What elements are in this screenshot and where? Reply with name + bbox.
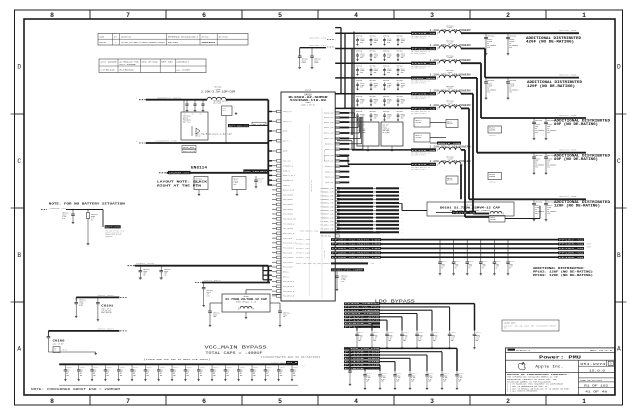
wire rail 5 run [461, 94, 489, 214]
node VDD_PROTECT net label [243, 169, 268, 173]
svg-text:4.7UF: 4.7UF [476, 337, 480, 339]
VCC_MAIN ground return wire [59, 384, 298, 386]
svg-text:C61XX: C61XX [387, 83, 391, 85]
svg-text:6.3V: 6.3V [341, 281, 345, 283]
svg-text:6V0: 6V0 [360, 42, 363, 44]
svg-text:BUCK1_LX0: BUCK1_LX0 [324, 122, 333, 124]
svg-text:6.3V: 6.3V [443, 379, 447, 381]
svg-text:1: 1 [582, 398, 586, 405]
svg-text:DNI_OPT: DNI_OPT [383, 125, 389, 127]
svg-text:1UF-X5R-0201: 1UF-X5R-0201 [101, 310, 111, 312]
IC U4810 right pins upper [324, 112, 349, 184]
node BATT_MAN_SYS net label [228, 124, 268, 128]
svg-text:6V0: 6V0 [387, 117, 390, 119]
relay boxes mid [414, 118, 446, 142]
svg-text:Q6110: Q6110 [183, 117, 188, 119]
svg-text:1.0UF: 1.0UF [196, 182, 200, 184]
svg-text:BUCK3_LX: BUCK3_LX [325, 144, 333, 146]
svg-text:4.7UF: 4.7UF [428, 377, 432, 379]
svg-text:POL: POL [535, 132, 538, 134]
LDO group1 net labels and wires [342, 302, 475, 330]
svg-text:PGND7_S0: PGND7_S0 [321, 214, 334, 216]
svg-text:6V0: 6V0 [387, 102, 390, 104]
wire staircase to rail7 [337, 141, 352, 150]
svg-text:PP104_SW: PP104_SW [559, 248, 584, 250]
svg-text:C61XX: C61XX [387, 114, 391, 116]
VCC_MAIN bypass capacitor row [64, 364, 299, 381]
svg-text:6V0: 6V0 [374, 72, 377, 74]
svg-text:NO_STUFF_OPTION_S: NO_STUFF_OPTION_S [411, 82, 426, 84]
svg-text:6V0: 6V0 [387, 57, 390, 59]
svg-text:6V: 6V [293, 373, 295, 375]
svg-text:PGND3_S0: PGND3_S0 [321, 199, 334, 201]
svg-text:120UF: 120UF [387, 85, 391, 87]
svg-text:120F: 120F [455, 266, 459, 268]
svg-text:PP1V8_S0: PP1V8_S0 [412, 33, 436, 35]
svg-text:35H: 35H [133, 375, 136, 377]
svg-text:NO_STUFF_OPTION_S: NO_STUFF_OPTION_S [411, 38, 426, 40]
svg-text:C61: C61 [184, 114, 187, 116]
svg-text:35H: 35H [186, 375, 189, 377]
bus bypass capacitors row [438, 239, 515, 275]
svg-text:6.3V: 6.3V [366, 379, 370, 381]
svg-text:6V0: 6V0 [387, 42, 390, 44]
svg-text:- +: - + [401, 228, 404, 230]
svg-text:6V: 6V [226, 373, 228, 375]
node PP0V9_SRAM net label [411, 76, 436, 84]
additional distributed 80F text [554, 119, 610, 127]
svg-text:C61XX: C61XX [360, 99, 364, 101]
title block sheet cells [578, 378, 614, 394]
svg-text:4.7UF: 4.7UF [418, 337, 422, 339]
inductor L6110 [430, 85, 471, 96]
IC right PRECHG net labels [321, 235, 340, 238]
svg-text:C61X: C61X [253, 370, 257, 372]
svg-text:GPIO_1: GPIO_1 [283, 272, 290, 274]
svg-text:ELTED098: ELTED098 [120, 70, 134, 72]
border column numbers top [50, 12, 586, 19]
net INPUT_BAYS wire mid [195, 279, 270, 282]
svg-text:BUCK0_LX0: BUCK0_LX0 [309, 38, 326, 40]
LDO group1 capacitors [355, 331, 481, 350]
svg-text:120UF: 120UF [401, 70, 405, 72]
svg-text:5: 5 [278, 398, 282, 405]
svg-text:15.0.0: 15.0.0 [589, 369, 606, 372]
svg-text:6.3V: 6.3V [373, 338, 377, 340]
node PP1V0_S0 net label [411, 92, 436, 100]
svg-text:120UF: 120UF [360, 40, 364, 42]
capacitor C6190 [74, 299, 85, 318]
svg-text:SEQUENCER: SEQUENCER [105, 236, 113, 238]
svg-text:PP1V1_SUBSMC: PP1V1_SUBSMC [345, 310, 380, 312]
svg-text:NO_STUFF_OPTION_S: NO_STUFF_OPTION_S [411, 53, 426, 55]
svg-text:POL: POL [547, 213, 550, 215]
svg-text:X5R: X5R [358, 340, 361, 342]
label LDO BYPASS [375, 299, 416, 304]
svg-text:C: C [17, 158, 21, 165]
svg-text:C614X: C614X [451, 335, 455, 337]
svg-text:10UF: 10UF [143, 273, 147, 275]
svg-text:6V0: 6V0 [401, 57, 404, 59]
svg-text:BUCK4_LX: BUCK4_LX [325, 149, 333, 151]
svg-text:- +: - + [401, 199, 404, 201]
svg-text:120UF: 120UF [387, 70, 391, 72]
svg-text:C6134: C6134 [314, 60, 318, 62]
svg-text:6.3V: 6.3V [411, 379, 415, 381]
svg-text:X5R: X5R [443, 381, 446, 383]
svg-text:BUCK7_LX: BUCK7_LX [325, 171, 333, 173]
svg-text:1.0UF: 1.0UF [234, 182, 238, 184]
svg-text:- +: - + [401, 188, 404, 190]
svg-text:BUCK0_LX1: BUCK0_LX1 [324, 117, 333, 119]
svg-text:PGND1_S0: PGND1_S0 [321, 192, 334, 194]
svg-text:120F: 120F [468, 266, 472, 268]
net NO_BUS short bar [300, 231, 380, 234]
svg-text:120UF: 120UF [387, 116, 391, 118]
note boxes DNI [182, 146, 196, 153]
svg-text:SWIR_N: SWIR_N [283, 170, 290, 172]
svg-text:6V: 6V [200, 373, 202, 375]
svg-text:X5R: X5R [396, 381, 399, 383]
svg-text:1UF: 1UF [173, 371, 176, 373]
svg-text:BUCK0_SW0: BUCK0_SW0 [559, 29, 577, 32]
net PPBUS_S1PG wire with C6143 caps [128, 263, 269, 266]
svg-text:C61X: C61X [146, 370, 150, 372]
svg-text:C61: C61 [200, 114, 203, 116]
svg-text:PP108_SW: PP108_SW [559, 257, 584, 259]
inductor L6195 [430, 54, 471, 65]
svg-text:C61XX: C61XX [374, 83, 378, 85]
svg-text:PMU_LDO3: PMU_LDO3 [283, 238, 292, 240]
svg-text:ADDITIONAL DISTRIBUTED:: ADDITIONAL DISTRIBUTED: [533, 267, 585, 270]
svg-text:BUCK4_SW0: BUCK4_SW0 [559, 195, 577, 198]
svg-text:VOUT_LD1: VOUT_LD1 [325, 182, 333, 184]
svg-text:6V0: 6V0 [387, 87, 390, 89]
svg-text:DNI10.5V-08: DNI10.5V-08 [183, 151, 195, 153]
node PGATE net label [452, 211, 476, 214]
svg-text:6V: 6V [482, 267, 484, 269]
svg-text:X5R-0402: X5R-0402 [359, 130, 366, 132]
wire IC pin to D6190 [246, 290, 280, 295]
svg-text:C614X: C614X [418, 335, 422, 337]
svg-text:1UF: 1UF [186, 371, 189, 373]
svg-text:6.3V: 6.3V [207, 295, 211, 297]
svg-text:4.7UF: 4.7UF [381, 377, 385, 379]
svg-text:INT_SCC: INT_SCC [283, 161, 291, 163]
net PP103_SW long bus wire [296, 243, 584, 246]
svg-text:6V: 6V [468, 267, 470, 269]
svg-text:120UF: 120UF [401, 101, 405, 103]
title block frame [506, 348, 615, 395]
svg-text:C61XX: C61XX [401, 99, 405, 101]
Apple logo [518, 362, 525, 369]
svg-text:4.7UF: 4.7UF [366, 377, 370, 379]
svg-text:C6116: C6116 [196, 180, 200, 182]
layout note text [157, 180, 207, 187]
wire rail 4 run [461, 78, 588, 155]
wire cluster D2 bus [354, 110, 410, 150]
svg-text:PP0V9_S0: PP0V9_S0 [412, 63, 436, 65]
svg-text:10UF: 10UF [213, 316, 217, 318]
svg-text:X5R: X5R [403, 340, 406, 342]
svg-text:C61X: C61X [186, 370, 190, 372]
node PP1V2_S0 net label [411, 47, 436, 55]
wire rail 2 run [461, 49, 581, 80]
svg-text:COMMENTS: COMMENTS [176, 62, 189, 64]
svg-text:POL: POL [547, 167, 550, 169]
svg-text:8: 8 [50, 12, 54, 19]
svg-text:120UF: 120UF [360, 116, 364, 118]
svg-text:1: 1 [582, 12, 586, 19]
svg-text:120F: 120F [509, 266, 513, 268]
svg-text:6V0: 6V0 [401, 42, 404, 44]
additional distributed 120F text [527, 80, 582, 88]
svg-text:5%: 5% [91, 219, 93, 221]
svg-text:BUCK2_SW0: BUCK2_SW0 [559, 114, 577, 117]
capacitor C6119 cluster [232, 177, 246, 196]
svg-text:- +: - + [401, 192, 404, 194]
svg-text:6V: 6V [120, 373, 122, 375]
svg-text:C61X: C61X [133, 370, 137, 372]
svg-text:PP1V2_S0: PP1V2_S0 [412, 48, 436, 50]
svg-text:BUCK5_LX1: BUCK5_LX1 [324, 161, 333, 163]
svg-text:6: 6 [202, 12, 206, 19]
svg-text:10UF: 10UF [164, 273, 168, 275]
svg-text:35H: 35H [200, 375, 203, 377]
svg-text:C61XX: C61XX [360, 83, 364, 85]
svg-text:ELECTED: ELECTED [100, 42, 106, 44]
svg-text:41.7X0W-20/50W-12 CAP: 41.7X0W-20/50W-12 CAP [225, 298, 268, 301]
inductor L6133 [430, 155, 471, 166]
svg-text:NO_STUFF_OPTION_S: NO_STUFF_OPTION_S [411, 68, 426, 70]
svg-text:C61XX: C61XX [401, 114, 405, 116]
svg-text:120UF: 120UF [374, 55, 378, 57]
thick bus to IC left pins upper [268, 100, 272, 186]
precharge sense parts [213, 100, 237, 144]
svg-text:B: B [17, 252, 21, 259]
svg-text:PPOUT_SW2: PPOUT_SW2 [296, 248, 310, 250]
svg-text:PGND5_S0: PGND5_S0 [321, 206, 334, 208]
svg-text:- +: - + [401, 221, 404, 223]
svg-text:420F (NO DE-RATING): 420F (NO DE-RATING) [526, 40, 574, 44]
svg-text:6V0: 6V0 [360, 72, 363, 74]
svg-text:VDD_N_L2: VDD_N_L2 [283, 121, 292, 123]
wire rail feeders from IC [335, 33, 411, 164]
svg-text:X5R: X5R [476, 340, 479, 342]
svg-text:PRE_02: PRE_02 [195, 136, 201, 138]
svg-text:PMU_GPIO_3: PMU_GPIO_3 [283, 281, 294, 283]
svg-text:4.7UF: 4.7UF [396, 377, 400, 379]
inductor L6191 [430, 24, 471, 35]
svg-text:C6144: C6144 [164, 271, 168, 273]
svg-text:DNI: DNI [54, 348, 57, 350]
inductor L6123 [430, 100, 471, 111]
svg-text:1UF: 1UF [66, 371, 69, 373]
svg-text:C615X: C615X [443, 375, 447, 377]
node BATT_SYS_SP net label [103, 210, 124, 238]
net PPDCIN_G3H wire [136, 140, 268, 144]
svg-text:PLD03_S0: PLD03_S0 [321, 228, 334, 230]
svg-text:35H: 35H [293, 375, 296, 377]
svg-text:C61XX: C61XX [374, 99, 378, 101]
svg-text:6V0: 6V0 [374, 42, 377, 44]
capacitor C6151 left of LDO group2 [344, 348, 352, 385]
svg-text:6V0: 6V0 [387, 72, 390, 74]
notice of proprietary text [507, 373, 570, 393]
svg-text:4.7UF: 4.7UF [451, 337, 455, 339]
svg-text:35H: 35H [160, 375, 163, 377]
svg-text:4.7K: 4.7K [91, 218, 95, 220]
svg-text:NOTE: FOR NO BATTERY SITUATION: NOTE: FOR NO BATTERY SITUATION [49, 202, 126, 205]
svg-text:120UF-6V: 120UF-6V [383, 128, 390, 130]
svg-text:6.3V: 6.3V [381, 379, 385, 381]
svg-text:120F: 120F [496, 266, 500, 268]
svg-text:35H: 35H [120, 375, 123, 377]
svg-text:VDD_MAIN3: VDD_MAIN3 [283, 208, 293, 211]
svg-text:PMU_GPIO_4: PMU_GPIO_4 [283, 286, 294, 288]
svg-text:C6143: C6143 [143, 271, 147, 273]
svg-text:C61X: C61X [173, 370, 177, 372]
diode block S1_7X0W cap [427, 202, 514, 216]
svg-text:6.3V: 6.3V [388, 338, 392, 340]
svg-text:PLD02_S0: PLD02_S0 [321, 225, 334, 227]
inductor L6197 [430, 69, 471, 80]
svg-text:PLD01_S0: PLD01_S0 [321, 221, 334, 223]
svg-text:1UF: 1UF [54, 350, 57, 352]
svg-text:NEW OPTION: NEW OPTION [142, 62, 158, 64]
additional distributed 120F text 3 [554, 200, 610, 208]
node PP1V1_S0 net label [411, 107, 436, 115]
node BUCK3_SW0 net name [559, 149, 577, 152]
svg-text:6V0: 6V0 [374, 57, 377, 59]
svg-text:C61X: C61X [496, 264, 500, 266]
svg-text:C61: C61 [192, 114, 195, 116]
svg-text:1UF: 1UF [207, 294, 210, 296]
svg-text:PMU_LDO4_T: PMU_LDO4_T [283, 247, 294, 249]
svg-text:PP3V3_SUBSD: PP3V3_SUBSD [345, 313, 380, 315]
svg-text:PPOUT_SW0: PPOUT_SW0 [296, 239, 310, 241]
value label DNI_FA_ECO cap [195, 132, 233, 137]
svg-text:STANDBY_A: STANDBY_A [283, 165, 294, 168]
svg-text:BUCK2_LX0: BUCK2_LX0 [324, 133, 333, 135]
svg-text:X5R: X5R [451, 340, 454, 342]
revision table 1 [98, 34, 248, 46]
svg-text:C61X: C61X [120, 370, 124, 372]
svg-text:120UF: 120UF [374, 70, 378, 72]
svg-text:C61XX: C61XX [387, 38, 391, 40]
svg-text:6.3V: 6.3V [428, 379, 432, 381]
svg-text:35H: 35H [266, 375, 269, 377]
svg-text:4.7UF: 4.7UF [411, 377, 415, 379]
svg-text:120UF: 120UF [374, 116, 378, 118]
svg-text:VDD_MAIN_SUP: VDD_MAIN_SUP [283, 218, 296, 221]
svg-text:PPOUT_SW1: PPOUT_SW1 [296, 244, 310, 246]
svg-text:NOTE_OPN: NOTE_OPN [183, 147, 194, 149]
node BUCK4_SW0 net name [559, 195, 577, 198]
svg-text:6.3V: 6.3V [62, 218, 66, 220]
svg-text:BUCK8_LX: BUCK8_LX [325, 177, 333, 179]
svg-text:1UF: 1UF [293, 371, 296, 373]
svg-text:120UF: 120UF [360, 85, 364, 87]
svg-text:C61XX: C61XX [374, 68, 378, 70]
svg-text:35H: 35H [253, 375, 256, 377]
relay RELAY17 part [488, 126, 502, 137]
wire rail 3 run [461, 63, 588, 120]
svg-text:DNI_FA_ECO#XXXX-1-01 CAP: DNI_FA_ECO#XXXX-1-01 CAP [195, 132, 233, 135]
wire rail 7 run [461, 150, 489, 217]
svg-text:C61XX: C61XX [387, 68, 391, 70]
border column numbers bottom [50, 398, 586, 405]
svg-text:120UF: 120UF [302, 62, 306, 64]
svg-text:X5R_NR: X5R_NR [62, 350, 67, 352]
svg-text:PP102_SW: PP102_SW [559, 239, 584, 241]
svg-text:- +: - + [401, 225, 404, 227]
svg-text:C61X: C61X [80, 370, 84, 372]
svg-text:6V: 6V [80, 373, 82, 375]
svg-text:6V0: 6V0 [374, 87, 377, 89]
svg-text:A: A [617, 346, 621, 353]
svg-text:6.3V: 6.3V [458, 379, 462, 381]
svg-text:1UF: 1UF [240, 371, 243, 373]
svg-text:LOOK 2 OF 31: LOOK 2 OF 31 [301, 104, 315, 106]
svg-text:POL: POL [487, 91, 490, 93]
svg-text:C61X: C61X [200, 370, 204, 372]
svg-text:PMU_LDO11: PMU_LDO11 [283, 262, 293, 264]
svg-text:C614X: C614X [403, 335, 407, 337]
svg-text:C6191P: C6191P [341, 277, 346, 279]
svg-text:C6120: C6120 [258, 180, 262, 182]
svg-text:POL: POL [535, 213, 538, 215]
resistor R6115 series row [296, 262, 374, 265]
title block header row [508, 349, 613, 352]
svg-text:120UF: 120UF [314, 62, 318, 64]
svg-text:OWNER: OWNER [100, 37, 105, 39]
svg-text:1UF: 1UF [80, 371, 83, 373]
IC U4810 left pins [272, 110, 296, 297]
svg-text:80F (NO DE-RATING): 80F (NO DE-RATING) [554, 157, 598, 161]
svg-text:R6101: R6101 [91, 216, 95, 218]
svg-text:6V: 6V [496, 267, 498, 269]
svg-text:6.3V: 6.3V [79, 305, 83, 307]
svg-text:PMU: PMU [504, 328, 507, 330]
op-amp U4810 PMU IC body [281, 89, 335, 301]
capacitor C6136 C6134 pair [298, 48, 326, 69]
svg-text:35H: 35H [280, 375, 283, 377]
capacitors C6152 C6153 [484, 32, 518, 55]
LDO group2 capacitors [363, 371, 464, 390]
svg-text:C61X: C61X [226, 370, 230, 372]
svg-text:DNI 0.5M-08: DNI 0.5M-08 [253, 124, 265, 126]
svg-text:X5R-0402: X5R-0402 [383, 130, 390, 132]
relay RELAY24 part [488, 173, 502, 184]
svg-text:NOTICE OF PROPRIETARY PROPERTY: NOTICE OF PROPRIETARY PROPERTY: [507, 373, 569, 376]
note concerned about ESR [31, 388, 121, 391]
wire vertical bus v2 [344, 33, 411, 108]
svg-text:6V: 6V [455, 267, 457, 269]
svg-text:C61X: C61X [482, 264, 486, 266]
svg-text:POL: POL [535, 167, 538, 169]
svg-text:C615X: C615X [366, 375, 370, 377]
part DNI 0.5M-08 label box [252, 122, 266, 126]
svg-text:X5R: X5R [366, 381, 369, 383]
svg-text:GND_LDO1_A: GND_LDO1_A [283, 232, 295, 235]
svg-text:C61X: C61X [93, 370, 97, 372]
svg-text:C6112: C6112 [283, 314, 287, 316]
svg-text:6.3V: 6.3V [403, 338, 407, 340]
svg-text:4.7UF: 4.7UF [62, 216, 66, 218]
svg-text:PGND0_S0: PGND0_S0 [321, 188, 334, 190]
svg-text:DRIVER: DRIVER [491, 219, 496, 221]
